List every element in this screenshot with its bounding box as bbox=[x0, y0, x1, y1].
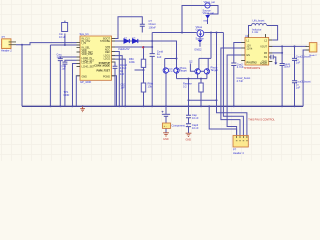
svg-text:Vbias_set: Vbias_set bbox=[204, 0, 216, 4]
svg-text:+ -: + - bbox=[164, 125, 167, 128]
svg-text:THIS PIN IS CONTROL: THIS PIN IS CONTROL bbox=[248, 119, 275, 122]
svg-text:100uF: 100uF bbox=[284, 65, 291, 68]
svg-text:LCHG_SET: LCHG_SET bbox=[82, 66, 95, 69]
svg-text:P?: P? bbox=[2, 35, 6, 39]
svg-text:Component_1: Component_1 bbox=[172, 124, 189, 128]
svg-text:Lfilt_boost: Lfilt_boost bbox=[253, 18, 265, 22]
svg-text:GND: GND bbox=[163, 138, 169, 141]
svg-text:12Vh: 12Vh bbox=[247, 47, 253, 50]
svg-text:0.2: 0.2 bbox=[183, 85, 187, 89]
svg-text:GP_1000: GP_1000 bbox=[80, 80, 92, 84]
svg-text:Header 2: Header 2 bbox=[1, 48, 12, 52]
svg-text:1uF: 1uF bbox=[296, 86, 301, 90]
svg-text:Header 4: Header 4 bbox=[233, 151, 244, 155]
svg-text:TPS55340RTE: TPS55340RTE bbox=[244, 67, 261, 70]
svg-text:100k: 100k bbox=[129, 60, 135, 64]
svg-text:EN: EN bbox=[247, 54, 251, 57]
svg-text:PWM_FSET: PWM_FSET bbox=[96, 70, 110, 73]
svg-text:1uF: 1uF bbox=[57, 56, 62, 59]
svg-text:VLED+5V: VLED+5V bbox=[118, 47, 130, 51]
svg-text:1 mH: 1 mH bbox=[252, 30, 258, 34]
svg-text:4.7nF: 4.7nF bbox=[237, 79, 244, 83]
svg-text:P?: P? bbox=[233, 148, 237, 152]
svg-text:1uF: 1uF bbox=[157, 55, 162, 59]
svg-text:1nF: 1nF bbox=[121, 87, 126, 90]
svg-text:13k: 13k bbox=[148, 85, 153, 89]
svg-text:SS: SS bbox=[264, 56, 268, 59]
svg-text:4.7nF: 4.7nF bbox=[237, 65, 244, 69]
svg-text:Q2: Q2 bbox=[189, 60, 193, 64]
svg-text:CONV_MODE: CONV_MODE bbox=[94, 64, 110, 67]
svg-text:I_IN: I_IN bbox=[81, 42, 86, 45]
svg-text:GND: GND bbox=[82, 76, 88, 79]
svg-text:Vbias_set: Vbias_set bbox=[203, 11, 215, 15]
svg-text:PV-STK2: PV-STK2 bbox=[247, 62, 258, 65]
svg-text:Gain: Gain bbox=[196, 27, 202, 31]
svg-text:BPV-H: BPV-H bbox=[168, 71, 175, 73]
svg-text:GND: GND bbox=[64, 93, 70, 97]
svg-text:Target: Target bbox=[211, 68, 218, 72]
svg-text:Sps_U1: Sps_U1 bbox=[80, 32, 90, 36]
svg-text:10 nF: 10 nF bbox=[192, 126, 199, 130]
svg-text:FB: FB bbox=[264, 52, 267, 55]
svg-text:100nF: 100nF bbox=[149, 25, 157, 29]
svg-text:1uF: 1uF bbox=[120, 72, 125, 76]
svg-text:VDD_DSP: VDD_DSP bbox=[82, 53, 94, 56]
svg-text:VOUT: VOUT bbox=[260, 46, 267, 49]
svg-text:GND: GND bbox=[186, 139, 192, 142]
svg-text:1uF: 1uF bbox=[62, 68, 67, 71]
svg-text:PGND: PGND bbox=[260, 63, 267, 66]
svg-text:1uF: 1uF bbox=[296, 61, 301, 65]
svg-text:Source: Source bbox=[196, 36, 205, 40]
svg-text:LDO2: LDO2 bbox=[104, 58, 111, 61]
svg-text:Mode 2: Mode 2 bbox=[309, 55, 317, 57]
svg-text:10 uF: 10 uF bbox=[59, 35, 66, 39]
svg-text:GND: GND bbox=[203, 21, 208, 23]
svg-text:10 nF: 10 nF bbox=[192, 116, 199, 120]
svg-text:GND2: GND2 bbox=[194, 47, 202, 51]
svg-text:Target: Target bbox=[180, 69, 187, 73]
svg-text:STROBE: STROBE bbox=[100, 40, 110, 43]
svg-text:LCHG_IN: LCHG_IN bbox=[82, 61, 93, 64]
svg-text:PGND: PGND bbox=[103, 76, 110, 79]
